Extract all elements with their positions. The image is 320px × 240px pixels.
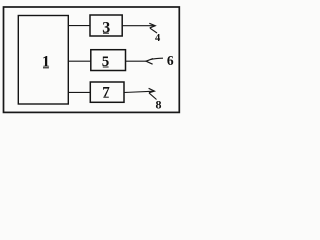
svg-text:3: 3 — [102, 20, 110, 37]
svg-text:6: 6 — [167, 53, 174, 68]
svg-text:8: 8 — [156, 98, 162, 112]
svg-text:5: 5 — [102, 54, 110, 70]
svg-text:7: 7 — [102, 84, 110, 100]
svg-text:4: 4 — [155, 33, 161, 44]
